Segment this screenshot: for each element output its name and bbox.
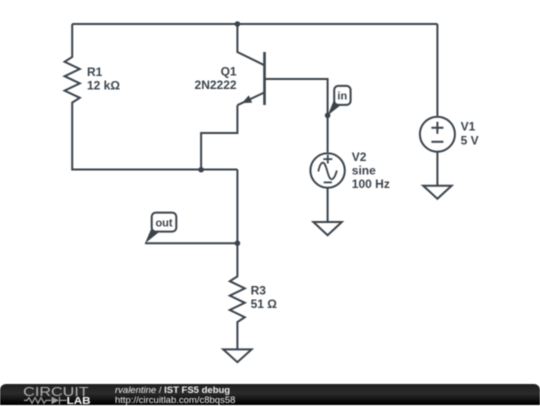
svg-text:5 V: 5 V [461,133,479,147]
svg-text:R1: R1 [87,65,103,79]
svg-text:Q1: Q1 [221,65,237,79]
svg-text:V1: V1 [461,119,476,133]
svg-text:sine: sine [352,164,376,178]
svg-text:51 Ω: 51 Ω [251,297,278,311]
svg-text:12 kΩ: 12 kΩ [87,79,120,93]
svg-text:out: out [155,218,172,230]
svg-text:2N2222: 2N2222 [195,78,237,92]
svg-text:in: in [337,91,347,103]
svg-text:LAB: LAB [67,396,91,405]
svg-text:V2: V2 [352,150,367,164]
svg-text:R3: R3 [251,283,267,297]
svg-text:100 Hz: 100 Hz [352,177,390,191]
